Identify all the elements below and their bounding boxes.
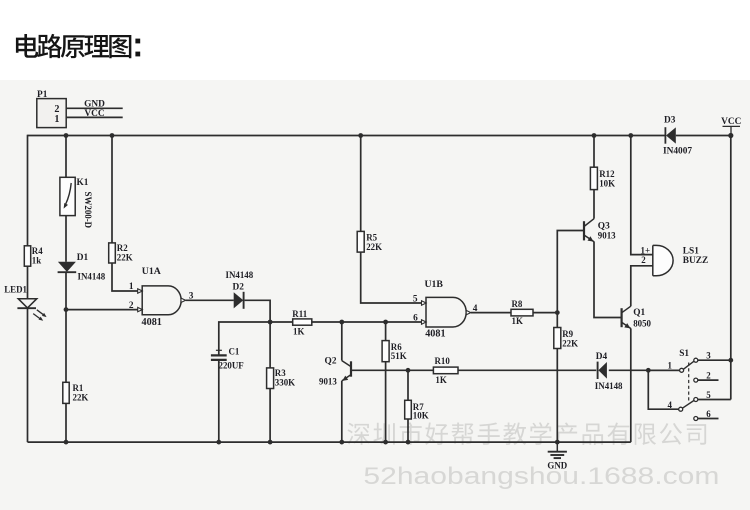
wire bus to R12 <box>593 135 595 168</box>
svg-text:10K: 10K <box>599 178 615 188</box>
wire C1 to bottom bus <box>218 360 220 442</box>
svg-text:4081: 4081 <box>425 329 445 340</box>
wire R4 to LED1 <box>27 266 29 299</box>
wire R2 to U1A pin1 <box>112 263 138 291</box>
transistor Q3 <box>584 219 594 242</box>
wire LED1 to bottom bus <box>27 309 29 442</box>
junction pin3/VCC rail <box>728 358 733 363</box>
svg-text:1K: 1K <box>435 375 446 385</box>
svg-text:U1B: U1B <box>425 279 444 290</box>
svg-text:3: 3 <box>706 351 711 361</box>
diode D1 <box>58 262 77 272</box>
wire U1A pin2 input <box>66 309 138 311</box>
wire base line to R7 <box>407 370 409 400</box>
svg-text:GND: GND <box>547 461 567 471</box>
wire R1 to bottom bus <box>65 403 67 442</box>
junction D1 rail / U1A pin2 <box>64 307 69 312</box>
svg-text:9013: 9013 <box>598 231 616 241</box>
svg-text:5: 5 <box>413 294 418 304</box>
diode D3 <box>665 127 675 144</box>
svg-text:1: 1 <box>129 282 134 292</box>
wire bus to K1 <box>65 135 67 178</box>
svg-text:22K: 22K <box>562 338 578 348</box>
svg-text:51K: 51K <box>391 351 407 361</box>
junction top bus / LS1 <box>628 133 633 138</box>
svg-text:R12: R12 <box>599 169 615 179</box>
switch S1 pole B <box>679 398 698 412</box>
wire R10 to D4 <box>458 369 596 371</box>
switch S1 pole A <box>680 358 698 372</box>
wire R6 to bottom bus <box>385 362 387 442</box>
svg-text:D2: D2 <box>233 282 245 292</box>
svg-text:IN4148: IN4148 <box>226 270 254 280</box>
wire D4 to S1 node <box>609 369 680 371</box>
P1 pin 2 wire (GND) <box>66 107 123 109</box>
svg-text:Q2: Q2 <box>325 357 337 367</box>
svg-text:22K: 22K <box>366 242 382 252</box>
resistor R8 <box>511 309 533 316</box>
wire left rail upper <box>27 135 29 246</box>
svg-text:5: 5 <box>706 390 711 400</box>
wire node to R6 <box>385 322 387 341</box>
junction top bus / K1 <box>64 133 69 138</box>
svg-text:R4: R4 <box>32 246 43 256</box>
resistor R2 <box>109 243 116 263</box>
svg-text:Q1: Q1 <box>633 308 645 318</box>
LED LED1 <box>17 299 46 321</box>
junction bottom/R7 <box>406 440 411 445</box>
junction node/R6 <box>383 320 388 325</box>
svg-text:R2: R2 <box>117 243 128 253</box>
svg-text:D1: D1 <box>77 253 89 263</box>
transistor Q1 <box>622 306 631 328</box>
wire U1B out to R8 <box>471 312 511 314</box>
junction top bus / R12 <box>592 133 597 138</box>
svg-text:SW200-D: SW200-D <box>83 192 93 229</box>
wire S1 pin3 to VCC rail <box>698 359 731 361</box>
resistor R7 <box>405 400 412 419</box>
diode D4 <box>598 362 607 379</box>
wire D2 to node <box>245 300 271 322</box>
junction D4 / S1 <box>646 368 651 373</box>
resistor R12 <box>590 167 597 189</box>
wire node to R3 <box>269 322 271 368</box>
svg-text:C1: C1 <box>229 346 240 356</box>
S1 gang dashed link <box>688 363 690 401</box>
wire R9 to bottom bus <box>556 349 558 443</box>
svg-text:D4: D4 <box>596 352 608 362</box>
ground <box>547 442 567 471</box>
svg-text:1K: 1K <box>512 316 523 326</box>
S1 pin 6 terminal <box>694 417 719 421</box>
svg-text:1k: 1k <box>32 256 41 266</box>
junction bottom/C1 <box>216 440 221 445</box>
power port VCC <box>721 117 741 138</box>
resistor R4 <box>24 246 30 266</box>
resistor R1 <box>63 382 69 403</box>
transistor Q2 <box>342 361 351 381</box>
svg-text:VCC: VCC <box>84 109 104 119</box>
svg-text:1: 1 <box>54 114 59 125</box>
resistor R9 <box>554 328 561 349</box>
wire S1 pin5 to VCC rail <box>698 399 731 401</box>
wire node to R9 <box>556 313 558 328</box>
junction R8/R9/Q3 node <box>555 310 560 315</box>
wire S1 pin1 feed <box>648 369 679 371</box>
svg-text:R1: R1 <box>73 383 84 393</box>
svg-text:R11: R11 <box>292 309 307 319</box>
wire R11 to U1B pin6 <box>312 321 422 323</box>
wire Q2 base line <box>351 369 433 371</box>
op-amp U1A (AND gate 4081) <box>138 286 186 315</box>
svg-text:4081: 4081 <box>142 317 162 328</box>
svg-text:S1: S1 <box>679 349 689 359</box>
junction D2/R3 node <box>268 320 273 325</box>
svg-text:BUZZ: BUZZ <box>683 256 708 266</box>
junction bottom/R3 <box>268 440 273 445</box>
resistor R11 <box>293 319 312 325</box>
svg-text:IN4007: IN4007 <box>663 147 692 157</box>
svg-text:D3: D3 <box>664 116 676 126</box>
svg-text:P1: P1 <box>37 90 48 100</box>
wire R7 to bottom bus <box>407 419 409 442</box>
svg-text:1K: 1K <box>293 326 304 336</box>
svg-text:22K: 22K <box>117 253 133 263</box>
junction top bus / R5 <box>358 133 363 138</box>
wire VCC right rail <box>730 136 732 400</box>
junction bottom/Q2 <box>339 440 344 445</box>
wire Q3 base drop <box>557 231 584 313</box>
wire bus to LS1 pin1 <box>631 136 653 255</box>
wire K1 to D1 <box>65 216 67 262</box>
resistor R6 <box>382 341 389 362</box>
svg-text:6: 6 <box>706 409 711 419</box>
wire node to Q2 collector <box>341 322 343 361</box>
svg-text:220UF: 220UF <box>219 361 245 371</box>
wire top bus right of D3 <box>676 135 731 137</box>
junction base line / R7 <box>406 368 411 373</box>
capacitor C1 <box>211 347 227 360</box>
resistor R3 <box>267 368 274 389</box>
svg-text:R5: R5 <box>366 232 377 242</box>
svg-text:VCC: VCC <box>721 117 741 127</box>
wire top bus left of D3 <box>28 135 666 137</box>
svg-text:1: 1 <box>668 361 672 371</box>
wire U1A out to D2 <box>186 299 234 301</box>
wire R8 to node <box>533 312 557 314</box>
svg-text:IN4148: IN4148 <box>595 381 623 391</box>
svg-text:2: 2 <box>641 255 646 265</box>
junction bottom/R1 <box>64 440 69 445</box>
resistor R5 <box>357 231 364 252</box>
wire D1 to R1 <box>65 272 67 382</box>
watermark line 1 <box>347 422 706 445</box>
junction bottom/R6 <box>383 440 388 445</box>
svg-text:R8: R8 <box>512 299 523 309</box>
wire Q1 collector to LS1 pin2 <box>631 266 653 306</box>
svg-text:R9: R9 <box>562 329 573 339</box>
wire R12 to Q3 collector <box>593 190 595 219</box>
svg-text:8050: 8050 <box>633 319 651 329</box>
svg-text:52haobangshou.1688.com: 52haobangshou.1688.com <box>363 463 719 490</box>
svg-text:2: 2 <box>706 371 711 381</box>
svg-text:R3: R3 <box>275 368 286 378</box>
wire Q2 emitter to bottom bus <box>341 381 343 442</box>
svg-text:10K: 10K <box>413 411 429 421</box>
wire R3 to bottom bus <box>269 389 271 443</box>
svg-text:2: 2 <box>129 301 134 311</box>
wire node line to C1 corner <box>219 322 293 355</box>
svg-text:IN4148: IN4148 <box>78 272 106 282</box>
switch K1 <box>60 177 75 215</box>
svg-text:22K: 22K <box>73 392 89 402</box>
svg-text:9013: 9013 <box>319 377 337 387</box>
svg-text:LED1: LED1 <box>4 285 27 295</box>
junction bottom/GND <box>555 440 560 445</box>
svg-text:U1A: U1A <box>142 266 161 277</box>
junction node/Q2 collector <box>339 320 344 325</box>
svg-text:6: 6 <box>413 313 418 323</box>
wire S1 pin4 drop <box>648 370 679 409</box>
resistor R10 <box>433 367 458 374</box>
op-amp U1B (AND gate 4081) <box>422 297 471 327</box>
svg-text:4: 4 <box>668 400 673 410</box>
svg-text:K1: K1 <box>77 178 89 188</box>
connector P1 <box>37 90 66 128</box>
wire Q3 emitter to Q1 base <box>594 242 622 318</box>
wire bus to R5 <box>360 135 362 232</box>
S1 pin 2 terminal <box>694 378 719 382</box>
P1 pin 1 wire (VCC) <box>66 116 123 118</box>
svg-text:1+: 1+ <box>641 245 651 255</box>
wire R5 to U1B pin5 <box>361 252 422 303</box>
buzzer LS1 <box>653 245 673 275</box>
wire Q1 emitter to bottom bus <box>630 328 632 442</box>
svg-text:330K: 330K <box>275 378 295 388</box>
wire bus to R2 <box>111 135 113 243</box>
title 电路原理图: <box>16 34 140 58</box>
diode D2 <box>234 292 244 309</box>
svg-text:LS1: LS1 <box>683 246 699 256</box>
junction top bus / R2 <box>110 133 115 138</box>
svg-text:R10: R10 <box>435 356 451 366</box>
wire bottom bus <box>28 441 631 443</box>
